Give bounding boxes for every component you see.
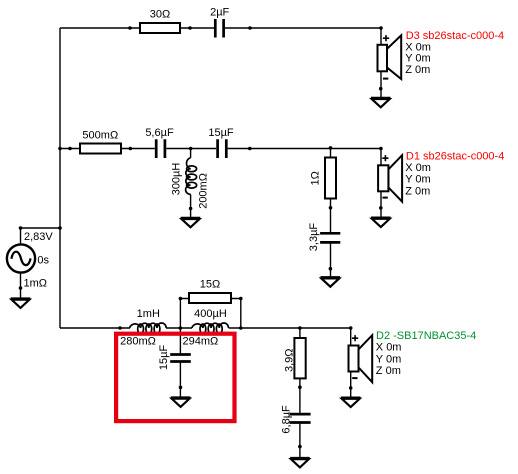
svg-text:3,9Ω: 3,9Ω (284, 348, 296, 372)
svg-text:400µH: 400µH (194, 308, 227, 320)
svg-text:1mΩ: 1mΩ (24, 277, 48, 289)
svg-text:6,8µF: 6,8µF (281, 405, 293, 434)
svg-text:Z 0m: Z 0m (376, 365, 401, 377)
svg-text:500mΩ: 500mΩ (82, 129, 118, 141)
svg-text:300µH: 300µH (171, 163, 183, 196)
svg-text:15µF: 15µF (208, 127, 234, 139)
svg-text:0s: 0s (37, 255, 49, 267)
svg-text:X 0m: X 0m (405, 162, 431, 174)
svg-text:D2 -SB17NBAC35-4: D2 -SB17NBAC35-4 (376, 330, 476, 342)
svg-text:Z 0m: Z 0m (405, 64, 430, 76)
svg-text:200mΩ: 200mΩ (198, 173, 210, 209)
svg-text:2,83V: 2,83V (24, 231, 53, 243)
svg-text:Y 0m: Y 0m (405, 174, 430, 186)
svg-text:294mΩ: 294mΩ (183, 336, 219, 348)
svg-text:30Ω: 30Ω (150, 9, 170, 21)
svg-text:5,6µF: 5,6µF (145, 127, 174, 139)
svg-text:2µF: 2µF (210, 6, 229, 18)
svg-text:X 0m: X 0m (405, 41, 431, 53)
svg-text:3,3µF: 3,3µF (308, 223, 320, 252)
svg-text:15µF: 15µF (158, 345, 170, 371)
svg-text:Y 0m: Y 0m (405, 53, 430, 65)
svg-text:Y 0m: Y 0m (376, 353, 401, 365)
svg-text:1mH: 1mH (137, 308, 160, 320)
svg-text:280mΩ: 280mΩ (120, 336, 156, 348)
svg-text:1Ω: 1Ω (310, 171, 322, 185)
svg-text:D3 sb26stac-c000-4: D3 sb26stac-c000-4 (406, 30, 504, 42)
svg-text:X 0m: X 0m (376, 342, 402, 354)
svg-text:Z 0m: Z 0m (405, 185, 430, 197)
svg-text:D1 sb26stac-c000-4: D1 sb26stac-c000-4 (406, 151, 504, 163)
svg-text:15Ω: 15Ω (200, 279, 220, 291)
